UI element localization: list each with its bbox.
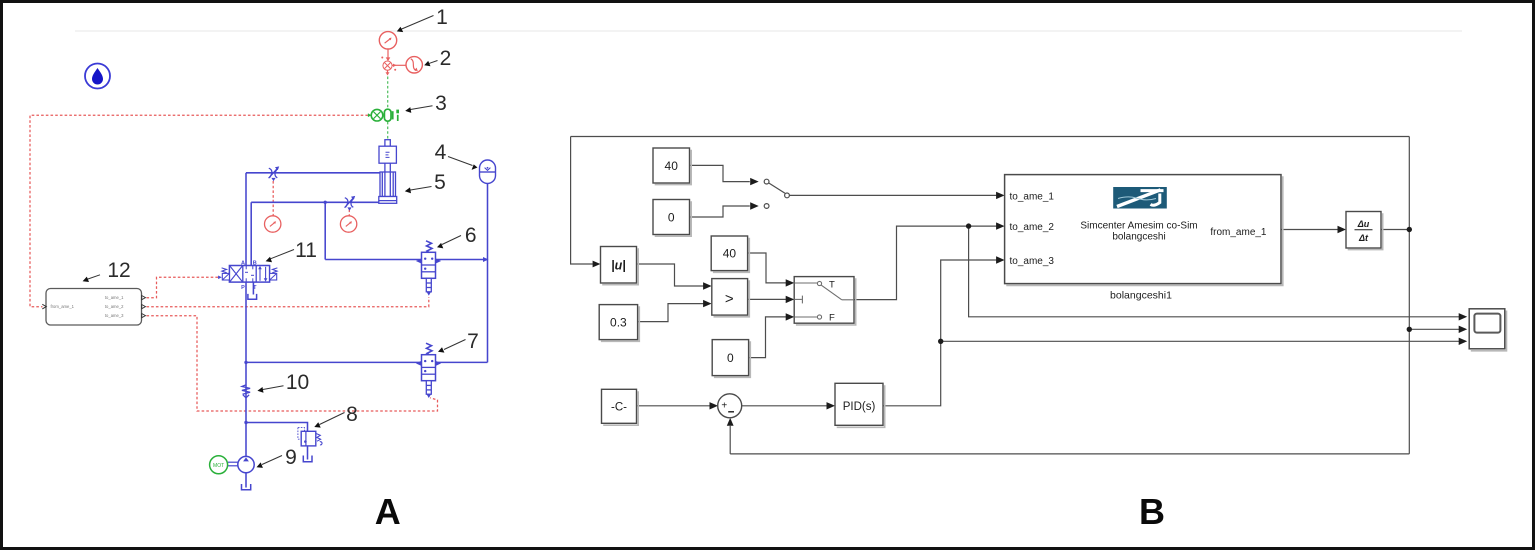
svg-text:T: T	[253, 285, 257, 291]
interface box 12	[42, 289, 145, 326]
relief valve 8	[298, 428, 322, 446]
wire branch down to relief valve 6 line	[324, 202, 326, 259]
svg-text:11: 11	[295, 239, 317, 262]
tank under valve 11	[248, 294, 257, 299]
manual switch contacts	[764, 179, 789, 208]
svg-text:F: F	[829, 313, 835, 324]
wire: red dashed gauge 1 drop	[272, 181, 274, 216]
wire sum to PID	[742, 405, 828, 407]
arrow feedback into sum	[727, 418, 734, 426]
wire A-line vertical to valve 11	[245, 173, 247, 266]
svg-text:5: 5	[434, 171, 446, 194]
Amesim logo	[1113, 187, 1167, 209]
wire manual switch output to to_ame_1	[789, 194, 997, 196]
relief valve 7	[416, 343, 441, 398]
flow control valve (upper)	[269, 166, 280, 181]
wire const40b to switch T	[748, 253, 787, 283]
svg-text:Δt: Δt	[1358, 233, 1369, 243]
wire relief valve 6 horizontal	[325, 259, 487, 261]
pressure gauge 1	[265, 216, 281, 232]
wire const0a to manual switch	[690, 206, 750, 217]
tank under pump	[242, 484, 251, 490]
svg-text:7: 7	[467, 330, 479, 353]
wire branch to scope input1	[969, 226, 1460, 317]
derivative block	[1346, 212, 1381, 249]
constant block 0 (top)	[653, 200, 690, 235]
wire valve 11 T port to tank	[252, 282, 254, 294]
valve 11 port labels	[241, 261, 257, 291]
flow control valve (lower)	[345, 196, 356, 211]
wire arrowheads	[703, 178, 1467, 410]
svg-text:-C-: -C-	[611, 402, 627, 414]
relational operator block	[712, 279, 748, 316]
svg-text:6: 6	[465, 224, 477, 247]
blue hydraulic wires	[246, 173, 488, 488]
constant block 0.3	[599, 305, 637, 340]
svg-text:to_ame_1: to_ame_1	[105, 295, 124, 300]
wire B-line horizontal	[251, 201, 379, 203]
svg-text:4: 4	[435, 141, 447, 164]
pilot arrow	[218, 276, 222, 280]
signal source 2	[406, 57, 422, 73]
svg-text:>: >	[725, 291, 734, 308]
pressure sensor 3	[368, 109, 399, 121]
svg-text:B: B	[1139, 491, 1165, 532]
wire const03 to relational	[638, 304, 704, 322]
cell X	[230, 266, 242, 281]
left solenoid	[222, 268, 227, 273]
svg-text:P: P	[241, 285, 245, 291]
tank under valve 8	[303, 456, 312, 462]
wire: red dashed pilot to valve 7	[147, 316, 438, 411]
svg-text:A: A	[241, 261, 245, 267]
wire: red dashed pilot to valve 6	[147, 297, 429, 307]
wire derivative to right edge	[1381, 229, 1409, 231]
oil drop icon	[85, 64, 110, 89]
svg-text:8: 8	[346, 403, 358, 426]
arrow into abs	[593, 261, 601, 268]
relief valve 6	[416, 241, 441, 296]
svg-text:from_ame_1: from_ame_1	[1210, 227, 1267, 238]
svg-text:40: 40	[665, 159, 679, 173]
right solenoid	[272, 268, 277, 273]
scan artifact line	[75, 30, 1462, 32]
svg-text:T: T	[829, 280, 835, 291]
wire: red dashed gauge 2 drop	[348, 210, 350, 216]
svg-text:12: 12	[107, 259, 130, 282]
constant block 0 (mid)	[712, 340, 748, 376]
wire: green dashed sensor links	[387, 77, 389, 109]
PID block	[835, 383, 883, 425]
svg-text:0.3: 0.3	[610, 315, 627, 329]
svg-text:|u|: |u|	[611, 258, 626, 272]
svg-text:9: 9	[285, 446, 297, 469]
wire from_ame_1 to derivative	[1281, 229, 1338, 231]
directional valve 11	[218, 266, 277, 283]
svg-text:Simcenter Amesim co-Sim: Simcenter Amesim co-Sim	[1080, 220, 1197, 231]
svg-text:10: 10	[286, 371, 309, 394]
wire branch to scope input3	[941, 340, 1460, 342]
constant block 40 (mid)	[711, 236, 747, 271]
wire constC to sum	[637, 405, 711, 407]
cell arrows	[259, 268, 261, 281]
svg-text:1: 1	[436, 6, 448, 29]
feedback wire frame	[571, 137, 1410, 454]
svg-text:0: 0	[668, 210, 675, 224]
wire abs to relational	[637, 264, 704, 286]
wire left edge into abs	[571, 137, 593, 265]
svg-text:MOT: MOT	[213, 463, 224, 469]
wire valve 8 to tank	[307, 446, 309, 460]
wire relational to switch control	[748, 298, 787, 300]
rotary node	[381, 57, 406, 76]
pump 9	[238, 456, 254, 472]
wire const0b to switch F	[749, 317, 787, 358]
wire A-line horizontal	[246, 172, 380, 174]
wire branch to relief valve 8	[246, 423, 308, 432]
switch block	[794, 277, 854, 324]
shaft coupling	[228, 462, 238, 466]
scope block	[1469, 309, 1505, 349]
wire right edge to scope input2	[1409, 328, 1459, 330]
tachometer 1	[379, 32, 396, 62]
svg-text:Δu: Δu	[1357, 219, 1370, 229]
abs block	[601, 247, 637, 284]
svg-text:A: A	[375, 491, 401, 532]
svg-text:2: 2	[440, 47, 452, 70]
svg-text:to_ame_1: to_ame_1	[1010, 191, 1055, 202]
wire accumulator vertical	[487, 184, 489, 363]
co-sim block bolangceshi1	[1005, 175, 1281, 284]
svg-text:B: B	[253, 261, 257, 267]
svg-text:PID(s): PID(s)	[843, 401, 876, 413]
cylinder 5	[379, 140, 397, 204]
constant block 40 (top)	[653, 148, 690, 183]
wire PID output to to_ame_3	[883, 260, 997, 406]
svg-text:3: 3	[435, 92, 447, 115]
svg-text:to_ame_3: to_ame_3	[105, 313, 124, 318]
svg-text:bolangceshi: bolangceshi	[1112, 231, 1165, 242]
block shadows	[601, 150, 1507, 428]
wire const40a to manual switch	[690, 165, 750, 181]
wire right edge	[1408, 137, 1410, 454]
constant block -C-	[602, 389, 637, 423]
junction dots	[324, 201, 327, 204]
wire bottom edge	[730, 453, 1409, 455]
cell center dashes	[245, 266, 254, 282]
wire: red dashed pilot to valve 11	[147, 277, 219, 297]
wire switch output to to_ame_2	[854, 226, 997, 300]
svg-text:to_ame_3: to_ame_3	[1010, 256, 1055, 267]
svg-text:to_ame_2: to_ame_2	[1010, 222, 1055, 233]
svg-text:to_ame_2: to_ame_2	[105, 304, 124, 309]
pressure gauge 2	[340, 216, 356, 232]
wire feedback up into sum	[729, 426, 731, 454]
svg-text:40: 40	[723, 247, 737, 261]
wire top edge	[571, 136, 1410, 138]
motor MOT	[210, 456, 228, 474]
wire relief valve 7 horizontal	[246, 361, 488, 363]
sum block	[718, 394, 742, 418]
wire pump to tank	[245, 473, 247, 488]
wire: red dashed main loop from sensor 3 to box 12	[30, 115, 368, 307]
orifice 10	[242, 385, 250, 398]
svg-text:bolangceshi1: bolangceshi1	[1110, 290, 1172, 302]
wire P vertical valve to pump	[245, 282, 247, 457]
svg-text:from_ame_1: from_ame_1	[51, 304, 75, 309]
accumulator 4	[480, 160, 496, 184]
junction dots	[966, 223, 971, 228]
svg-text:0: 0	[727, 351, 734, 365]
wires with arrows	[637, 165, 1460, 405]
wire B-line vertical to valve 11	[250, 202, 252, 265]
callout labels	[83, 6, 479, 469]
svg-text:+: +	[721, 400, 727, 411]
